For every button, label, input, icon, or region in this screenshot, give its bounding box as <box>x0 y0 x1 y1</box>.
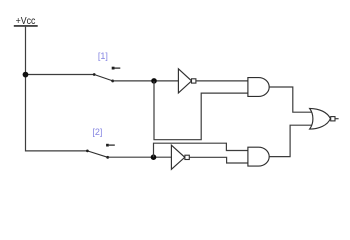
power +Vcc <box>14 15 38 27</box>
junction node J1 <box>151 78 157 84</box>
wire J2 up across and down to AND2 input A <box>154 143 248 157</box>
junction node on Vcc rail <box>23 72 29 78</box>
svg-text:[1]: [1] <box>98 51 108 61</box>
switch J2 <box>86 150 109 159</box>
wire AND2 output to NOR input B <box>269 125 311 156</box>
inverter U3 <box>171 145 189 169</box>
AND gate U2 <box>248 78 269 97</box>
switch J1 actuator mark <box>112 67 121 70</box>
switch J1 <box>93 73 114 82</box>
svg-text:[2]: [2] <box>92 127 102 137</box>
wire inverter 1 output to AND1 input A <box>196 80 248 82</box>
switch J2 actuator mark <box>106 144 115 147</box>
wire Vcc rail to switch 1 <box>26 74 95 76</box>
wire Vcc rail down and to switch 2 <box>26 27 88 151</box>
inverter U1 <box>178 69 196 93</box>
wire AND1 output to NOR input A <box>269 87 311 112</box>
NOR gate U5 <box>310 108 339 129</box>
wire switch 1 to inverter 1 input <box>113 80 179 82</box>
wire switch 2 to inverter 2 input <box>108 156 172 158</box>
junction node J2 <box>151 154 157 160</box>
wire J1 down across and up to AND1 input B <box>154 81 248 140</box>
AND gate U4 <box>248 147 269 166</box>
wire inverter 2 output jog to AND2 input B <box>189 157 248 163</box>
